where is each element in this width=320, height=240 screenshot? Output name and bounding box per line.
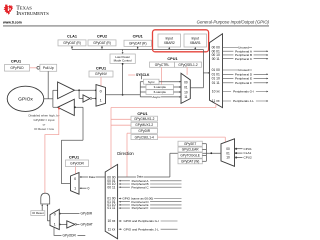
output demux row 00 00 Data [107,176,115,180]
svg-text:1: 1 [54,223,56,227]
write register bracket [202,144,206,162]
svg-text:IO Reset = low: IO Reset = low [34,127,55,131]
svg-text:GPIOx: GPIOx [18,96,33,102]
svg-text:Peripheral C: Peripheral C [235,57,253,61]
svg-text:GPyDAT: GPyDAT [81,223,93,227]
register GPyQSEL1-2 [175,62,202,67]
svg-text:SYSCLK: SYSCLK [136,73,150,77]
arrow into Input XBAR2 [168,47,170,50]
select wire GPyDIR down to data line [127,133,131,177]
svg-text:10: 10 [226,156,230,160]
enable OR gate [41,193,50,204]
enable wire to output buffer [45,108,60,194]
wire bus to low power box [122,50,124,54]
gate input from IO Reset [41,204,43,211]
svg-text:GPyTOGGLE: GPyTOGGLE [180,154,199,158]
select wire GPyODR to mux [75,167,77,175]
select stub GPyGMUX1-2 [111,118,131,120]
svg-text:Peripheral C: Peripheral C [131,185,149,189]
inverter bubble at pull-up [37,66,40,69]
wire 6-sample to mux [174,91,182,93]
svg-text:Peripherals G-I: Peripherals G-I [233,90,254,94]
output demux row 00 01 Peripheral A [107,179,181,183]
svg-text:GPyDAT (R): GPyDAT (R) [129,41,147,45]
label CPU1 over GPyODR [69,156,79,160]
label Data near ODR mux [88,175,95,179]
svg-text:1: 1 [74,187,76,191]
input demux row 01 11 Peripheral F [212,81,269,85]
pull-up box [40,64,57,71]
GPyDIR input [59,212,93,216]
select line to input demux [111,104,216,108]
svg-text:CPU1: CPU1 [11,60,21,64]
CPU master select mux [221,139,235,167]
svg-text:Direction: Direction [117,151,134,156]
label CPU1 over GPyPUD [11,60,21,64]
register GPyDAT (W) [178,159,202,164]
register GPyDIR [131,128,158,133]
svg-text:Peripherals J-L: Peripherals J-L [233,99,254,103]
6-sample box [146,90,174,95]
register GPyPUD [5,65,30,72]
wire GPyPUD to pull-up bubble [30,67,37,69]
svg-text:Peripheral F: Peripheral F [235,81,252,85]
3-sample box [146,85,174,90]
svg-text:11 xx: 11 xx [212,99,220,103]
svg-text:CPU2: CPU2 [97,34,107,38]
svg-text:CPU1: CPU1 [244,147,253,151]
qualification input bracket [140,82,146,97]
select wire GPyCSEL to CPU mux [158,137,226,142]
junction output buffer input [74,106,76,108]
svg-text:GPyINV: GPyINV [95,72,108,76]
register GPyCSEL1-4 [131,135,158,140]
wire low power box down to input node [122,63,124,96]
input XBAR2 box [158,34,181,47]
wire sync to mux [159,81,181,83]
constant zero input [80,186,90,190]
svg-text:GPIO and Peripherals G-I: GPIO and Peripherals G-I [123,219,159,223]
svg-text:00 11: 00 11 [212,57,220,61]
input demux row 10 xx Peripherals G-I [212,90,268,94]
arrow into Input XBAR1 [194,47,196,50]
output demux row 01 10 Peripheral E [107,203,181,207]
register GPyTOGGLE [178,153,202,159]
label CPU1 over qualification registers [167,57,177,61]
label Direction [117,151,134,156]
svg-text:0: 0 [54,212,56,216]
svg-text:CPU1: CPU1 [167,57,177,61]
svg-text:GPyDIR = input: GPyDIR = input [34,118,55,122]
svg-text:00: 00 [226,147,230,151]
www.ti.com [2,20,22,24]
svg-text:GPyQSEL1-2: GPyQSEL1-2 [178,63,198,67]
label IO Reset [31,211,45,216]
header rule [3,25,269,27]
svg-text:0: 0 [100,90,102,94]
input demux row 00 00 Unused [212,46,252,50]
open drain mux [71,173,80,195]
arrow into CLA1 GPyDAT [71,46,73,50]
wire qualification mux output [190,50,203,88]
svg-text:01 11: 01 11 [107,206,115,210]
buffer disable note [28,114,60,131]
output demux row 01 11 Peripheral F [107,206,181,210]
svg-text:CPU1: CPU1 [96,66,106,70]
svg-text:GPyDIR: GPyDIR [138,129,150,133]
output demux row 00 10 Peripheral B [107,182,181,186]
svg-text:CLA1: CLA1 [244,151,252,155]
output demux row 10 xx GPIO and Peripherals G-I [107,219,177,223]
svg-text:GPIO and Peripherals J-L: GPIO and Peripherals J-L [123,227,159,231]
svg-text:3-sample: 3-sample [154,85,167,89]
svg-text:CPU2: CPU2 [244,156,253,160]
svg-text:CLA1: CLA1 [67,34,77,38]
select wire GPyQSEL to qualification mux [186,67,188,75]
output demux row 01 00 GPIO (same as 00:00) [107,197,181,201]
sync box [144,79,160,84]
gate input from direction mux [47,204,49,221]
select wire GPyINV to mux [100,77,102,86]
svg-text:Sync: Sync [148,80,155,84]
svg-text:GPySET: GPySET [184,142,196,146]
output buffer [58,99,75,115]
GPyDAT input buffer [59,221,93,228]
inverter for GPyINV [83,95,96,102]
svg-text:General-Purpose Input/Output (: General-Purpose Input/Output (GPIO) [197,20,270,25]
red highlight box around Input XBARs [153,30,209,52]
input demux row 01 00 Unused [212,68,252,72]
register GPyCLEAR [178,147,202,152]
svg-text:6-sample: 6-sample [154,90,167,94]
svg-text:1: 1 [100,98,102,102]
svg-text:Input: Input [191,36,199,40]
svg-text:Peripheral F: Peripheral F [132,206,149,210]
svg-text:0: 0 [88,186,90,190]
register CPU2 GPyDAT (R) [88,34,116,46]
TI logo text TEXAS INSTRUMENTS [16,5,49,16]
svg-text:Data: Data [89,175,95,179]
low power mode control box [110,54,135,63]
wire SYSCLK to sync [141,76,143,80]
svg-text:11 xx: 11 xx [108,227,116,231]
wire pull-up to pin net [47,71,49,99]
CPU select input CPU1 [235,147,252,151]
svg-text:GPyODR: GPyODR [63,234,77,238]
select wire GPyODR to direction mux [54,227,85,237]
qualification mux [181,73,190,103]
svg-text:or: or [43,123,46,127]
svg-text:Disabled when high, by: Disabled when high, by [28,114,60,118]
page title General-Purpose Input/Output (GPIO) [197,20,270,25]
svg-text:Mode Control: Mode Control [114,59,132,63]
input peripheral demux [210,34,223,108]
svg-text:10 xx: 10 xx [212,90,220,94]
svg-text:GPyCSEL1-4: GPyCSEL1-4 [135,135,154,139]
svg-text:www.ti.com: www.ti.com [2,20,22,24]
svg-text:GPyDIR: GPyDIR [81,212,93,216]
wire open drain mux to output buffer [61,107,83,183]
wire direction mux output [47,220,50,222]
input demux row 11 xx Peripherals J-L [212,99,268,103]
svg-text:GPyMUX1-2: GPyMUX1-2 [135,123,153,127]
svg-text:GPyDAT (W): GPyDAT (W) [181,159,199,163]
svg-text:11: 11 [184,95,188,99]
arrow into CPU2 GPyDAT [101,46,103,50]
label CPU1 over GPyINV [96,66,106,70]
wire 3-sample to mux [174,86,182,88]
svg-text:CPU1: CPU1 [133,35,143,39]
input buffer [58,82,75,99]
output demux row 01 01 Peripheral D [107,200,181,204]
register GPyCTRL [150,62,175,67]
label SYSCLK [128,73,150,77]
svg-text:01 11: 01 11 [212,81,220,85]
label Async [152,95,161,99]
output peripheral demux [105,164,117,238]
label Data near output demux [136,175,143,179]
wire branch to inverter [79,90,83,98]
svg-text:GPyODR: GPyODR [70,161,84,165]
register CLA1 GPyDAT (R) [58,34,86,46]
input XBAR1 box [184,34,207,47]
register GPyODR [66,160,89,167]
output demux row 00 11 Peripheral C [107,185,181,189]
CPU select input CPU2 [235,156,252,160]
svg-text:10 xx: 10 xx [107,219,115,223]
svg-text:XBAR2: XBAR2 [164,41,175,45]
data line [80,176,170,178]
input demux row 00 01 Peripheral A [212,49,269,53]
register GPySET [178,141,202,146]
TI logo bug (red) [4,5,14,15]
arrow into input demux [203,72,209,74]
svg-text:GPyCTRL: GPyCTRL [155,63,170,67]
output demux row 11 xx GPIO and Peripherals J-L [108,227,178,231]
svg-text:Pull-Up: Pull-Up [43,66,54,70]
register GPyGMUX1-2 [131,116,158,121]
label CPU1 over mux registers [137,112,147,116]
svg-text:XBAR1: XBAR1 [190,41,201,45]
select vertical GPyGMUX/GPyMUX [110,108,112,169]
register CPU1 GPyDAT (R) [124,35,152,47]
select stub GPyMUX1-2 [111,124,131,126]
input demux row 00 10 Peripheral B [212,53,269,57]
select wire GPyCTRL to sample windows [161,67,163,84]
inversion mux [95,85,105,107]
svg-text:10: 10 [184,90,188,94]
input demux row 01 01 Peripheral D [212,72,269,76]
input demux row 00 11 Peripheral C [212,57,269,61]
svg-text:GPyDAT (R): GPyDAT (R) [93,41,111,45]
svg-text:CPU1: CPU1 [137,112,147,116]
async wire [140,96,181,98]
svg-text:CPU1: CPU1 [69,156,79,160]
svg-text:GPyCLEAR: GPyCLEAR [182,148,200,152]
svg-text:IO Reset: IO Reset [32,211,44,215]
svg-text:00: 00 [184,80,188,84]
svg-text:01: 01 [184,85,188,89]
input data bus to read registers [72,49,203,51]
svg-text:Async: Async [152,95,161,99]
svg-text:0: 0 [74,177,76,181]
wire CPU mux output to data line [170,152,221,177]
wire pin to buffers [44,90,58,107]
svg-text:GPyDAT (R): GPyDAT (R) [63,41,81,45]
svg-text:Input: Input [165,36,173,40]
register GPyINV [89,71,113,77]
input demux row 01 10 Peripheral E [212,77,269,81]
GPIOx pin ellipse [7,86,44,111]
arrow into CPU1 GPyDAT [137,46,139,49]
register GPyMUX1-2 [131,122,158,127]
CPU select input CLA1 [235,151,251,155]
arrow data into mux [80,176,82,178]
svg-text:00 11: 00 11 [107,185,115,189]
wire input buffer to inversion mux [75,89,97,91]
svg-text:GPyGMUX1-2: GPyGMUX1-2 [134,117,155,121]
direction mux [50,209,59,229]
wire inversion mux output [106,94,141,96]
svg-text:GPyPUD: GPyPUD [10,66,24,70]
